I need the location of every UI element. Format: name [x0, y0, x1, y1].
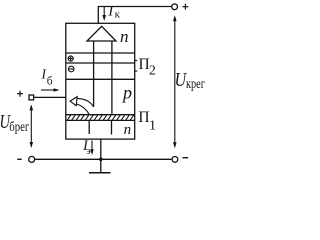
- donor ion symbol (circle-plus): [68, 56, 73, 61]
- minus sign bottom left: [17, 158, 21, 160]
- plus sign left: [17, 91, 23, 97]
- emitter stub left below strip: [88, 120, 90, 134]
- curved hole-flow arrow upper curve: [77, 98, 94, 107]
- plus sign top right: [182, 4, 188, 10]
- current arrow Ib (right): [41, 89, 55, 91]
- current arrow Ie (down): [91, 141, 93, 151]
- svg-text:n: n: [120, 27, 129, 46]
- emitter terminal circle bottom right: [172, 157, 178, 163]
- junction P1 hatched strip top line: [66, 114, 135, 116]
- junction line C (collector junction lower boundary): [66, 78, 135, 80]
- acceptor ion symbol (circle-minus): [68, 66, 74, 72]
- base terminal circle bottom left: [29, 156, 35, 162]
- voltage arrow U_k (double headed vertical): [174, 17, 176, 147]
- emitter arrow triangle: [87, 26, 116, 41]
- minus sign bottom right: [183, 157, 189, 159]
- voltage arrow U_b (double headed vertical): [30, 106, 32, 146]
- device body (n-p-n structure rectangle): [66, 23, 135, 139]
- junction dot at emitter lead and bottom wire: [99, 158, 103, 162]
- svg-text:к: к: [115, 9, 121, 21]
- collector lead (top): [98, 7, 171, 24]
- svg-text:n: n: [124, 122, 132, 138]
- svg-text:э: э: [86, 145, 91, 157]
- hatching of junction P1: [67, 115, 134, 121]
- base terminal square: [29, 95, 34, 100]
- svg-text:брег: брег: [9, 120, 29, 135]
- ground bar: [89, 172, 111, 174]
- base wire: [34, 96, 66, 98]
- junction line A (collector junction upper boundary): [66, 52, 135, 54]
- svg-text:крег: крег: [186, 77, 205, 92]
- bottom wire: [35, 158, 172, 160]
- channel left line: [93, 41, 95, 107]
- junction line B (junction P2 plane): [66, 62, 135, 64]
- collector terminal circle: [172, 4, 178, 10]
- emitter lead (bottom): [100, 139, 102, 173]
- svg-text:p: p: [121, 82, 132, 102]
- current arrow Ik (down): [103, 7, 105, 17]
- emitter stub right below strip: [111, 120, 113, 134]
- curved hole-flow arrow lower curve: [76, 104, 89, 115]
- svg-text:б: б: [47, 76, 53, 88]
- curved hole-flow arrow head (hollow, pointing left): [70, 97, 77, 106]
- svg-text:I: I: [107, 4, 114, 20]
- svg-text:П: П: [138, 109, 149, 126]
- svg-text:1: 1: [149, 118, 156, 133]
- svg-text:2: 2: [149, 64, 156, 79]
- tick upper at right edge: [135, 60, 138, 62]
- junction P1 hatched strip bottom line: [66, 119, 135, 121]
- channel right line: [111, 41, 113, 115]
- tick lower at right edge: [135, 70, 138, 72]
